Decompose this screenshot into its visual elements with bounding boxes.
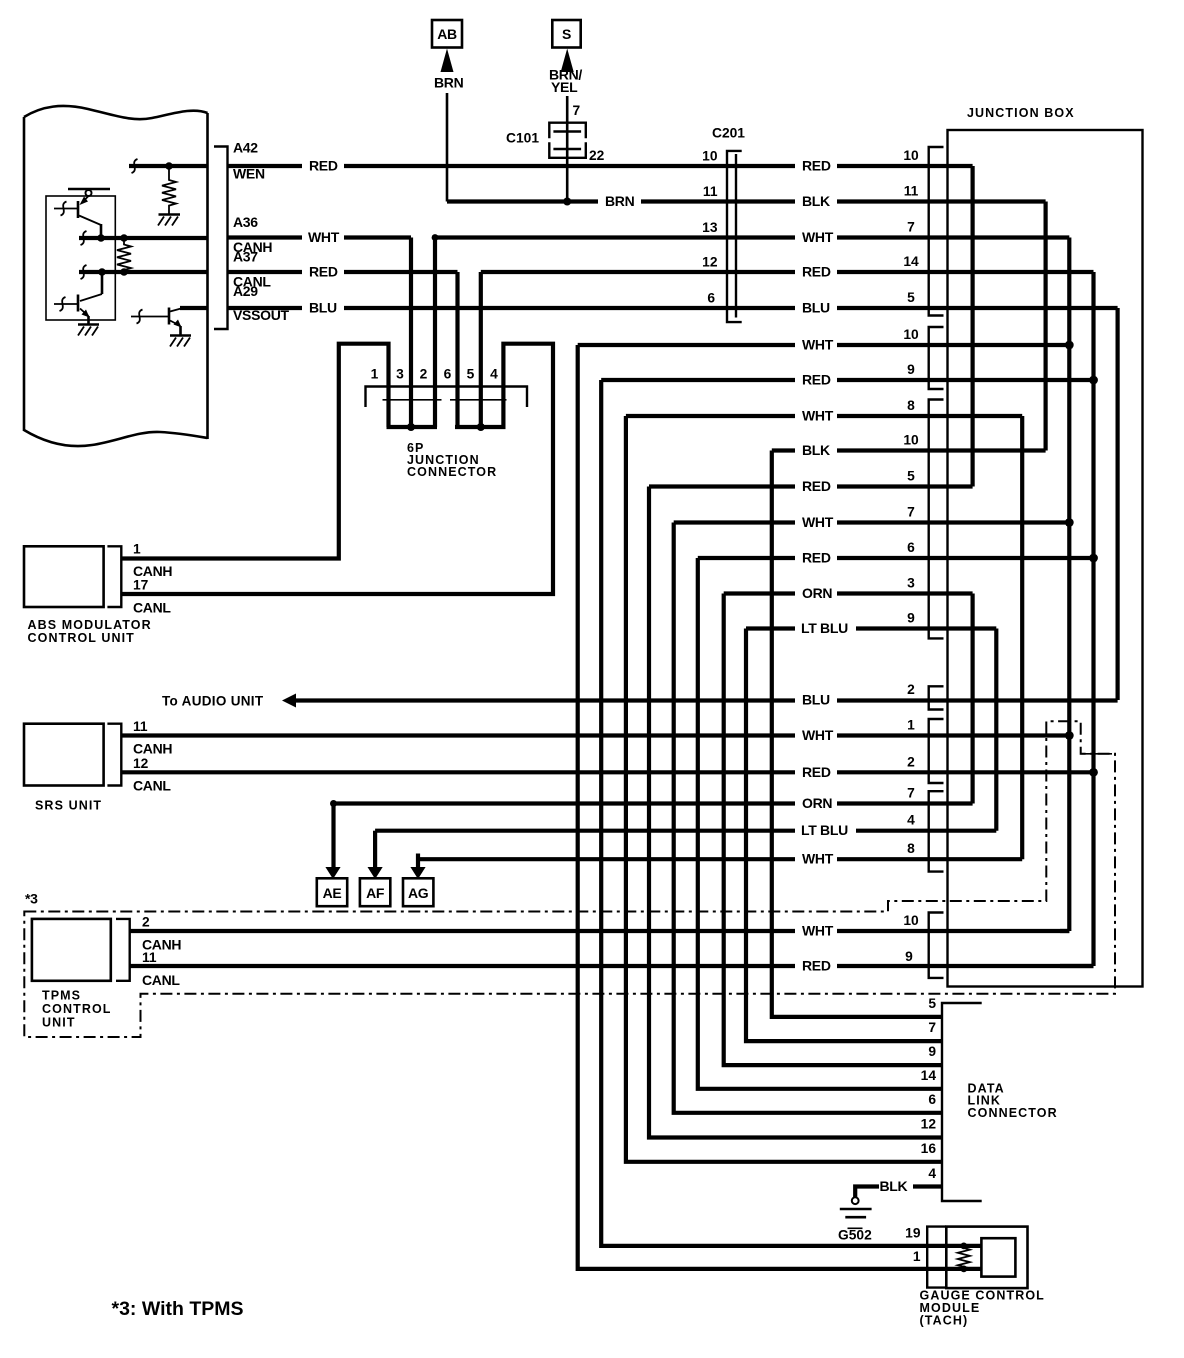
wire RED JB 9(B) <box>601 378 1093 382</box>
svg-text:9: 9 <box>907 362 915 377</box>
svg-text:RED: RED <box>309 158 338 174</box>
svg-text:BRN: BRN <box>434 75 464 91</box>
svg-text:5: 5 <box>907 469 915 484</box>
svg-text:6: 6 <box>907 540 915 555</box>
ground G502 symbol <box>840 1197 872 1217</box>
staircase vertical RED to gauge 19 <box>601 380 981 1246</box>
junction dot BRN node <box>563 198 571 206</box>
JB internal BLU vertical (5A-2D) <box>1115 308 1119 700</box>
arrow into AG <box>410 867 425 879</box>
JB RED bus corner to G9 <box>1060 964 1094 968</box>
svg-text:BLU: BLU <box>309 300 337 316</box>
svg-text:12: 12 <box>133 756 149 771</box>
JB connector bracket group C (pins 8,10,5,7,6,3,9) <box>929 400 944 639</box>
label G502 <box>838 1228 872 1243</box>
junction dot RED bus row E2 <box>1089 768 1098 777</box>
svg-text:ORN: ORN <box>802 585 832 601</box>
wire stub VSSOUT internal <box>180 306 208 310</box>
svg-text:3: 3 <box>907 576 915 591</box>
svg-text:8: 8 <box>907 841 915 856</box>
wire WHT JB 7(C) <box>674 520 1070 524</box>
svg-text:8: 8 <box>907 398 915 413</box>
svg-text:17: 17 <box>133 578 149 593</box>
ground G-Q2 <box>78 325 99 336</box>
svg-text:6: 6 <box>707 291 715 306</box>
arrow up into S <box>561 49 574 73</box>
node dot CANH collector <box>97 234 105 242</box>
JB connector bracket group E (pins 1,2) <box>929 719 944 783</box>
svg-text:CONNECTOR: CONNECTOR <box>407 465 497 479</box>
JB internal WHT vertical (8C-8F) <box>1020 416 1024 859</box>
resistor R1 (pull-down on WEN) <box>162 166 176 214</box>
connector C101 symbol <box>549 123 586 158</box>
svg-text:4: 4 <box>490 367 498 382</box>
svg-text:2: 2 <box>907 682 915 697</box>
svg-text:RED: RED <box>802 372 831 388</box>
node dot on WEN stub <box>165 162 173 170</box>
svg-text:AE: AE <box>323 885 342 901</box>
junction dot resistor top <box>960 1243 967 1250</box>
JB connector bracket group B (pins 10,9) <box>929 327 944 389</box>
svg-text:AG: AG <box>408 885 429 901</box>
connector box S <box>552 20 580 48</box>
junction dot 6P right bus <box>477 423 485 431</box>
6P junction connector pin 2 riser <box>433 238 437 428</box>
DATA LINK CONNECTOR caption <box>968 1082 1058 1120</box>
staircase vertical WHT to DLC 6 <box>674 523 942 1113</box>
wire stub CANL internal <box>79 265 208 279</box>
svg-text:2: 2 <box>420 367 428 382</box>
JB internal RED bus vertical (14A-9B-6C-2E-9G) <box>1091 272 1095 966</box>
svg-text:4: 4 <box>928 1166 936 1181</box>
svg-text:RED: RED <box>309 264 338 280</box>
wire WHT JB 10(B) <box>578 343 1070 347</box>
svg-text:ORN: ORN <box>802 795 832 811</box>
wire ORN JB 7 to AE <box>330 800 973 868</box>
svg-text:To AUDIO UNIT: To AUDIO UNIT <box>162 694 264 709</box>
JB internal WHT bus vertical (7A-10B-7C-1E-10G) <box>1067 238 1071 932</box>
junction dot WHT bus row E1 <box>1065 731 1074 740</box>
JB internal RED bus vertical (10A-5C) <box>970 166 974 487</box>
wire TPMS CANH (WHT) to JB 10 <box>130 929 1070 933</box>
JB connector bracket group D (pin 2) <box>929 686 944 709</box>
svg-text:YEL: YEL <box>551 79 578 95</box>
transistor pair enclosure (thin rect) <box>46 196 115 320</box>
svg-text:11: 11 <box>703 184 718 199</box>
junction dot WHT bus row B <box>1065 341 1074 350</box>
JB WHT bus corner to G10 <box>1060 929 1069 933</box>
DLC connector bracket <box>942 1003 982 1201</box>
connector box AE <box>317 878 347 906</box>
svg-text:BLK: BLK <box>802 442 830 458</box>
svg-text:7: 7 <box>907 505 915 520</box>
svg-text:5: 5 <box>467 367 475 382</box>
wire BLU A29/VSSOUT to C201-6 to JB <box>228 306 1118 310</box>
svg-text:WHT: WHT <box>802 727 834 743</box>
JUNCTION BOX outline <box>948 130 1143 987</box>
ground G-R1 <box>158 215 180 226</box>
wire stub CANH internal <box>79 231 208 245</box>
svg-text:BLU: BLU <box>802 692 830 708</box>
svg-text:BRN: BRN <box>605 193 635 209</box>
transistor Q2 (lower) <box>54 272 102 325</box>
ECU control-module box (torn edges) <box>24 106 208 446</box>
svg-text:7: 7 <box>907 786 915 801</box>
TPMS connector bracket <box>116 919 130 981</box>
TPMS CONTROL UNIT caption <box>42 989 112 1030</box>
junction dot WHT bus row C7 <box>1065 518 1074 527</box>
svg-text:11: 11 <box>142 950 157 965</box>
wire RED JB 5(C) <box>649 484 973 488</box>
svg-text:BLU: BLU <box>802 300 830 316</box>
To AUDIO UNIT arrow wire (BLU) <box>282 694 1118 708</box>
svg-text:9: 9 <box>928 1044 936 1059</box>
supply bar <box>68 188 110 191</box>
svg-text:AF: AF <box>366 885 385 901</box>
node dot CANL resistor bottom <box>120 268 128 276</box>
wire WHT A36/CANH to 6P pin3 <box>228 235 411 239</box>
svg-text:14: 14 <box>921 1068 937 1083</box>
svg-text:A36: A36 <box>233 214 258 230</box>
6P junction connector pin 5 riser <box>479 272 483 427</box>
wire WHT JB 8(C) <box>626 414 1022 418</box>
svg-text:LT BLU: LT BLU <box>801 822 848 838</box>
wire RED A42 to C201-10 to JB <box>228 164 973 168</box>
svg-text:WHT: WHT <box>802 851 834 867</box>
node dot CANL collector <box>98 268 106 276</box>
SRS unit box <box>24 724 104 786</box>
svg-text:22: 22 <box>589 148 605 163</box>
svg-text:RED: RED <box>802 264 831 280</box>
GAUGE CONTROL MODULE (TACH) caption <box>920 1289 1045 1328</box>
svg-text:14: 14 <box>903 254 919 269</box>
svg-text:CANL: CANL <box>133 600 171 616</box>
staircase vertical ORN to DLC 9 <box>724 594 942 1066</box>
svg-text:RED: RED <box>802 478 831 494</box>
svg-text:SRS UNIT: SRS UNIT <box>35 799 102 813</box>
svg-text:19: 19 <box>905 1226 921 1241</box>
svg-text:13: 13 <box>702 220 718 235</box>
ground G-Q3 <box>170 336 191 347</box>
gauge connector bracket <box>927 1227 946 1288</box>
arrow into AF <box>368 867 383 879</box>
pull-up terminal circle <box>86 190 92 196</box>
svg-text:CONNECTOR: CONNECTOR <box>968 1106 1058 1120</box>
connector C201 <box>727 151 742 322</box>
svg-text:CANL: CANL <box>133 778 171 794</box>
node dot CANH resistor top <box>120 234 128 242</box>
wire WHT 6P pin2 to C201-13 to JB <box>435 235 1069 239</box>
staircase vertical WHT to gauge 1 <box>578 345 982 1269</box>
svg-text:12: 12 <box>702 255 718 270</box>
6P connector body <box>366 387 528 428</box>
svg-text:1: 1 <box>133 542 141 557</box>
svg-text:JUNCTION BOX: JUNCTION BOX <box>967 106 1075 120</box>
ABS connector bracket <box>107 546 121 607</box>
wire RED 6P pin5 to C201-12 to JB <box>481 270 1094 274</box>
svg-text:10: 10 <box>903 433 919 448</box>
svg-text:WHT: WHT <box>802 514 834 530</box>
6P junction connector pin 6 drop <box>455 272 459 427</box>
svg-text:CONTROL UNIT: CONTROL UNIT <box>28 631 135 645</box>
svg-text:10: 10 <box>903 327 919 342</box>
wire BRN horizontal to C201-11 and BLK to JB <box>447 199 1046 203</box>
wire stub WEN internal <box>129 159 208 173</box>
svg-text:16: 16 <box>921 1141 937 1156</box>
JB connector bracket group G (pins 10,9) <box>929 913 944 978</box>
connector box AF <box>360 878 390 906</box>
junction dot resistor bottom <box>960 1266 967 1273</box>
svg-text:CANL: CANL <box>142 972 180 988</box>
svg-text:C201: C201 <box>712 126 745 141</box>
svg-text:9: 9 <box>907 611 915 626</box>
svg-text:12: 12 <box>921 1117 937 1132</box>
junction dot 6P left bus <box>407 423 415 431</box>
junction dot RED bus row C6 <box>1089 554 1098 563</box>
svg-text:1: 1 <box>371 367 379 382</box>
JB internal BLK vertical (11A-10C) <box>1043 202 1047 451</box>
transistor Q3 (VSS output) <box>131 308 182 336</box>
gauge control module box <box>946 1227 1027 1289</box>
svg-text:5: 5 <box>907 290 915 305</box>
svg-text:10: 10 <box>702 149 718 164</box>
junction dot RED bus row B <box>1089 376 1098 385</box>
svg-text:7: 7 <box>928 1020 936 1035</box>
TPMS control unit box <box>32 919 111 981</box>
wire SRS CANL (RED) to JB 2 <box>121 770 1093 774</box>
ECU pin connector bracket <box>214 147 228 330</box>
svg-text:RED: RED <box>802 158 831 174</box>
svg-text:*3: With TPMS: *3: With TPMS <box>112 1298 244 1320</box>
gauge internal resistor <box>958 1246 970 1270</box>
svg-text:A37: A37 <box>233 249 258 265</box>
svg-text:1: 1 <box>907 718 915 733</box>
wire RED A37/CANL to 6P pin6 <box>228 270 458 274</box>
junction dot 6P pin2 riser <box>432 234 439 241</box>
wire BLK JB 10(C) <box>772 448 1046 452</box>
svg-text:3: 3 <box>396 367 404 382</box>
svg-text:RED: RED <box>802 958 831 974</box>
arrow up into AB <box>441 49 454 73</box>
svg-text:UNIT: UNIT <box>42 1016 76 1030</box>
transistor Q1 (upper PNP) <box>54 196 101 238</box>
wire SRS CANH (WHT) to JB 1 <box>121 733 1069 737</box>
svg-text:WHT: WHT <box>802 337 834 353</box>
staircase vertical WHT to DLC 16 <box>626 416 942 1162</box>
svg-text:C101: C101 <box>506 131 539 146</box>
ABS MODULATOR CONTROL UNIT caption <box>28 618 152 645</box>
wire LT BLU JB 4 to AF <box>375 831 996 868</box>
svg-text:6: 6 <box>444 367 452 382</box>
wire WHT JB 8 to AG <box>418 854 1022 869</box>
JB internal ORN vertical (3C-7F) <box>970 594 974 804</box>
svg-text:WHT: WHT <box>802 229 834 245</box>
svg-text:(TACH): (TACH) <box>920 1314 969 1328</box>
SRS connector bracket <box>107 724 121 786</box>
svg-text:WHT: WHT <box>308 229 340 245</box>
JB connector bracket group A (pins 10,11,7,14,5) <box>929 147 944 316</box>
svg-text:G502: G502 <box>838 1228 872 1243</box>
svg-text:AB: AB <box>437 26 457 42</box>
svg-text:10: 10 <box>903 148 919 163</box>
svg-text:RED: RED <box>802 550 831 566</box>
svg-text:CANH: CANH <box>133 741 172 757</box>
svg-text:10: 10 <box>903 913 919 928</box>
wire BLK DLC 4 to ground G502 <box>855 1187 942 1198</box>
staircase vertical LT BLU to DLC 7 <box>746 629 942 1042</box>
label BRN/YEL <box>549 67 582 96</box>
resistor R2 (CANH-CANL terminator) <box>117 238 131 272</box>
staircase vertical RED to DLC 12 <box>649 487 942 1138</box>
wire ABS CANH to 6P pin 1 <box>121 344 388 559</box>
6P JUNCTION CONNECTOR caption <box>407 441 497 479</box>
svg-text:A42: A42 <box>233 140 258 156</box>
JB connector bracket group F (pins 7,4,8) <box>929 791 944 871</box>
JB internal LT BLU vertical (9C-4F) <box>994 629 998 831</box>
svg-text:4: 4 <box>907 813 915 828</box>
wire RED JB 6(C) <box>698 556 1094 560</box>
connector box AB <box>432 20 462 48</box>
wire TPMS CANL (RED) to JB 9 <box>130 964 1094 968</box>
staircase vertical RED to DLC 14 <box>698 558 942 1089</box>
svg-text:TPMS: TPMS <box>42 989 81 1003</box>
svg-text:ABS MODULATOR: ABS MODULATOR <box>28 618 152 632</box>
svg-text:CONTROL: CONTROL <box>42 1002 112 1016</box>
ABS modulator control unit box <box>24 546 104 607</box>
gauge internal meter box <box>981 1238 1015 1276</box>
arrow into AE <box>325 867 340 879</box>
wire LT BLU JB 9(C) <box>746 626 996 630</box>
svg-text:WHT: WHT <box>802 408 834 424</box>
svg-text:1: 1 <box>913 1249 921 1264</box>
svg-text:BLK: BLK <box>802 193 830 209</box>
staircase vertical BLK to DLC 5 <box>772 451 942 1017</box>
connector box AG <box>403 878 433 906</box>
svg-text:2: 2 <box>907 754 915 769</box>
svg-text:WHT: WHT <box>802 923 834 939</box>
svg-text:LT BLU: LT BLU <box>801 620 848 636</box>
wire ABS CANL to 6P pin 4 <box>121 344 553 594</box>
svg-text:7: 7 <box>907 220 915 235</box>
dashed option boundary (*3 With TPMS) <box>24 721 1115 1037</box>
svg-text:*3: *3 <box>25 891 38 907</box>
wire BRN vertical to AB <box>446 93 449 202</box>
wire ORN JB 3(C) <box>724 591 973 595</box>
svg-text:RED: RED <box>802 764 831 780</box>
6P junction connector pin 3 drop <box>409 238 413 428</box>
svg-text:7: 7 <box>573 103 581 118</box>
svg-text:9: 9 <box>905 949 913 964</box>
svg-text:2: 2 <box>142 915 150 930</box>
svg-text:5: 5 <box>928 996 936 1011</box>
svg-text:BLK: BLK <box>880 1178 908 1194</box>
svg-text:11: 11 <box>904 184 919 199</box>
svg-text:6: 6 <box>928 1092 936 1107</box>
svg-text:A29: A29 <box>233 283 258 299</box>
svg-text:S: S <box>562 26 571 42</box>
svg-text:11: 11 <box>133 719 148 734</box>
wire BRN/YEL vertical through C101 <box>566 96 569 202</box>
